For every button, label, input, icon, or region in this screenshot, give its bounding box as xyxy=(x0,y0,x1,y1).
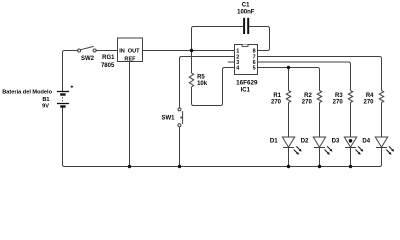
wire D4 to ground rail xyxy=(381,148,383,165)
junction node D1 ground xyxy=(287,165,290,168)
wire IC1 pin 3 stub xyxy=(228,61,235,63)
svg-text:C1: C1 xyxy=(242,3,250,9)
IC1 notch xyxy=(242,45,248,47)
svg-text:9V: 9V xyxy=(42,104,49,110)
junction node D2 ground xyxy=(318,165,321,168)
wire R3 to D3 xyxy=(350,103,352,138)
svg-text:5: 5 xyxy=(253,66,256,72)
resistor R3 xyxy=(348,91,352,103)
regulator RG1 box xyxy=(118,38,143,62)
wire IC1 pin 2 to SW1 xyxy=(180,57,235,108)
wire D1 to ground rail xyxy=(288,148,290,167)
svg-text:270: 270 xyxy=(271,99,282,105)
wire R1 to D1 xyxy=(288,103,290,138)
resistor R2 xyxy=(317,91,321,103)
svg-text:IC1: IC1 xyxy=(241,88,251,94)
LED D1 arrows xyxy=(294,146,302,154)
battery B1 xyxy=(57,85,73,106)
switch SW1 xyxy=(178,108,183,127)
LED D3 arrows xyxy=(356,146,364,154)
svg-text:B1: B1 xyxy=(42,97,49,103)
wire IC1 pin 4 to R5 xyxy=(192,68,235,106)
capacitor C1 xyxy=(244,18,248,34)
svg-text:270: 270 xyxy=(363,99,374,105)
svg-text:16F629: 16F629 xyxy=(236,80,258,87)
svg-text:270: 270 xyxy=(333,99,344,105)
svg-text:SW2: SW2 xyxy=(81,56,95,62)
LED D1 xyxy=(282,137,294,148)
wire RG1 OUT to IC1 pin 1 xyxy=(143,50,235,52)
wire IC1 pin 5 to R1 and R2 xyxy=(258,68,320,91)
wire IC1 pin 7 to R4 xyxy=(258,57,382,91)
LED D4 xyxy=(375,137,387,148)
svg-text:SW1: SW1 xyxy=(161,116,175,122)
LED D3 xyxy=(344,137,356,148)
svg-text:OUT: OUT xyxy=(128,48,140,54)
wire R1 branch xyxy=(288,68,290,91)
svg-text:7805: 7805 xyxy=(101,63,115,69)
wire D2 to ground rail xyxy=(319,148,321,167)
wire SW2 to RG1 IN xyxy=(96,50,117,52)
svg-text:IN: IN xyxy=(119,48,125,54)
junction node VDD xyxy=(190,49,193,52)
resistor R5 xyxy=(189,51,193,88)
junction node R1 pin5 xyxy=(287,66,290,69)
junction node SW1 ground xyxy=(178,165,181,168)
wire C1 right leg to IC1 pin 8 xyxy=(249,27,269,51)
wire C1 left leg xyxy=(192,27,244,51)
svg-text:100nF: 100nF xyxy=(237,10,255,16)
wire RG1 REF to ground rail xyxy=(129,62,131,167)
svg-text:R2: R2 xyxy=(304,93,312,99)
junction node REF ground xyxy=(128,165,131,168)
IC1 box xyxy=(235,45,258,75)
svg-text:R5: R5 xyxy=(197,75,205,81)
svg-text:10k: 10k xyxy=(197,81,208,87)
junction node D3 ground xyxy=(349,165,352,168)
svg-text:270: 270 xyxy=(302,99,313,105)
LED D2 arrows xyxy=(325,146,333,154)
svg-text:D2: D2 xyxy=(301,138,309,144)
wire R4 to D4 xyxy=(381,103,383,138)
wire R2 to D2 xyxy=(319,103,321,138)
LED D2 xyxy=(313,137,325,148)
svg-text:R1: R1 xyxy=(273,93,281,99)
svg-text:D3: D3 xyxy=(332,138,340,144)
svg-text:R3: R3 xyxy=(335,93,343,99)
switch SW2 xyxy=(78,46,97,52)
ground rail wire xyxy=(63,107,382,167)
resistor R1 xyxy=(286,91,290,103)
resistor R4 xyxy=(379,91,383,103)
LED D4 arrows xyxy=(386,146,394,154)
svg-text:Batería del Modelo: Batería del Modelo xyxy=(2,90,52,96)
wire SW1 to ground rail xyxy=(179,127,181,167)
wire battery plus up to SW2 xyxy=(63,51,78,92)
wire D3 to ground rail xyxy=(350,148,352,167)
svg-text:REF: REF xyxy=(124,56,136,62)
svg-text:R4: R4 xyxy=(366,93,374,99)
svg-text:4: 4 xyxy=(236,66,239,72)
svg-text:D4: D4 xyxy=(362,138,370,144)
svg-text:D1: D1 xyxy=(270,138,278,144)
svg-text:RG1: RG1 xyxy=(102,55,115,61)
wire IC1 pin 6 to R3 xyxy=(258,62,351,91)
